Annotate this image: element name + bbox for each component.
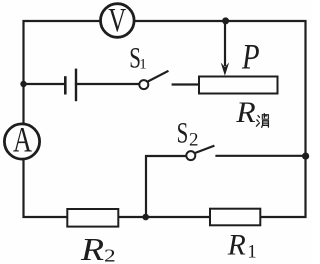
svg-text:R: R xyxy=(80,231,104,264)
svg-text:2: 2 xyxy=(104,245,116,264)
svg-text:R: R xyxy=(235,95,256,129)
svg-text:2: 2 xyxy=(189,130,199,151)
svg-text:R: R xyxy=(227,229,246,261)
svg-text:1: 1 xyxy=(247,242,257,263)
svg-text:V: V xyxy=(108,2,126,40)
svg-text:A: A xyxy=(13,119,32,159)
svg-text:1: 1 xyxy=(139,56,147,72)
svg-text:S: S xyxy=(177,116,189,150)
svg-text:P: P xyxy=(241,37,260,77)
